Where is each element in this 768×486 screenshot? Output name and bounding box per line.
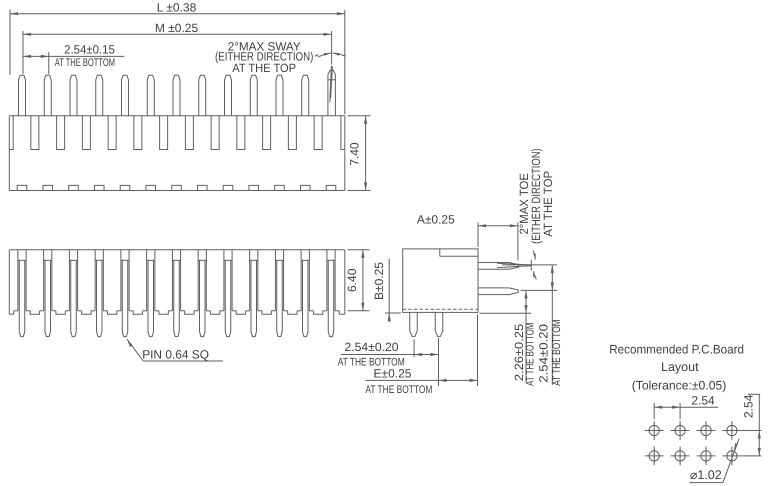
view1 bottom notch 6 bbox=[146, 185, 156, 190]
svg-text:⌀1.02: ⌀1.02 bbox=[690, 468, 722, 482]
svg-text:2.54: 2.54 bbox=[691, 394, 715, 408]
dimension L ±0.38 bbox=[10, 0, 345, 114]
B dimension line bbox=[388, 259, 390, 323]
view 1: straight header front view bbox=[9, 66, 345, 191]
dimension 2.54±0.20 right (vertical) bbox=[537, 265, 564, 386]
view1 slot 7 bbox=[185, 116, 193, 150]
PCB hole row1 col4 bbox=[723, 421, 742, 440]
M left extension line bbox=[22, 31, 24, 74]
view1 slot 5 bbox=[134, 116, 142, 150]
view2 body right edge bbox=[344, 250, 346, 315]
view1 pin 4 bbox=[96, 75, 103, 115]
view1 slot 8 bbox=[211, 116, 219, 150]
view1 body top edge bbox=[9, 115, 345, 117]
7.40 dimension line bbox=[365, 116, 367, 191]
svg-text:PIN 0.64 SQ: PIN 0.64 SQ bbox=[142, 347, 209, 361]
svg-text:Layout: Layout bbox=[661, 360, 699, 374]
pinB extension bbox=[438, 338, 440, 386]
view1 pin 5 bbox=[122, 75, 129, 115]
view2 castellated bottom edge bbox=[9, 313, 14, 315]
dimension E±0.25 bbox=[365, 315, 477, 396]
svg-text:(Tolerance:±0.05): (Tolerance:±0.05) bbox=[632, 379, 727, 393]
view1 pin 3 bbox=[70, 75, 77, 115]
view1 pin 1 bbox=[19, 75, 26, 115]
sway leader bbox=[315, 55, 319, 57]
view3 lower horizontal pin bbox=[478, 288, 518, 295]
view2 pin 2 bbox=[43, 250, 45, 311]
PCB hole row2 col3 bbox=[697, 447, 716, 466]
svg-text:AT THE TOP: AT THE TOP bbox=[541, 171, 555, 237]
6.40 dimension line bbox=[362, 250, 364, 311]
view2 pin 6 bbox=[146, 250, 148, 311]
svg-text:6.40: 6.40 bbox=[345, 268, 359, 292]
view2 pin 8 bbox=[197, 250, 199, 311]
view1 slot 1 bbox=[31, 116, 39, 150]
pin13 shoulder line bbox=[328, 79, 336, 81]
view2 pin 9 bbox=[223, 250, 225, 311]
view2 pin 3 bbox=[68, 250, 70, 311]
view1 pin 8 bbox=[199, 75, 206, 115]
view1 bottom notch 2 bbox=[43, 185, 53, 190]
view1 bottom notch 11 bbox=[275, 185, 285, 190]
view1 slot 9 bbox=[237, 116, 245, 150]
view3 bottom pin A bbox=[410, 312, 418, 336]
view2 pin 5 bbox=[120, 250, 122, 311]
view1 bottom notch 1 bbox=[17, 185, 27, 190]
2° max toe note bbox=[517, 148, 555, 279]
A dimension line bbox=[478, 225, 518, 227]
PCB dimension 2.54 vertical bbox=[741, 394, 761, 456]
M dimension line bbox=[23, 33, 332, 35]
view1 slot 6 bbox=[160, 116, 168, 150]
svg-text:2.54±0.20: 2.54±0.20 bbox=[537, 324, 551, 383]
upper pin center extension bbox=[502, 264, 557, 266]
svg-text:L ±0.38: L ±0.38 bbox=[157, 0, 197, 14]
col1 extension bbox=[653, 403, 655, 420]
B bottom extension bbox=[385, 312, 401, 314]
view2 pin 11 bbox=[274, 250, 276, 311]
view2 pin 10 bbox=[249, 250, 251, 311]
svg-text:AT THE BOTTOM: AT THE BOTTOM bbox=[551, 319, 563, 385]
L right extension line bbox=[344, 10, 346, 114]
view3 top seam vertical bbox=[439, 249, 441, 256]
7.40 top extension bbox=[348, 115, 371, 117]
view 2: straight header pin-side view bbox=[9, 250, 345, 337]
view1 pin 6 bbox=[147, 75, 154, 115]
view1 bottom notch 12 bbox=[300, 185, 310, 190]
view1 pin 13 tilt spike bbox=[330, 66, 332, 103]
view1 pin 9 bbox=[225, 75, 232, 115]
view3 upper pin tilt wedge bbox=[497, 263, 532, 265]
PCB hole row2 col1 bbox=[645, 447, 664, 466]
view1 bottom notch 5 bbox=[120, 185, 130, 190]
recommended PCB layout title bbox=[609, 342, 744, 392]
svg-text:A±0.25: A±0.25 bbox=[417, 212, 455, 226]
view1 slot 10 bbox=[263, 116, 271, 150]
svg-text:B±0.25: B±0.25 bbox=[372, 262, 386, 300]
body right edge extension bbox=[477, 315, 479, 386]
svg-text:E±0.25: E±0.25 bbox=[374, 366, 412, 380]
PCB hole row2 col2 bbox=[671, 447, 690, 466]
7.40 bottom extension bbox=[348, 190, 371, 192]
pin2 extension line bbox=[48, 52, 50, 74]
view1 slot 2 bbox=[57, 116, 65, 150]
view1 bottom notch 10 bbox=[249, 185, 259, 190]
view1 bottom notch 7 bbox=[172, 185, 182, 190]
view1 slot 3 bbox=[82, 116, 90, 150]
view1 pin 7 bbox=[173, 75, 180, 115]
pinA extension bbox=[413, 339, 415, 357]
view2 body top edge bbox=[9, 249, 345, 251]
sway arc left bbox=[318, 53, 331, 57]
svg-text:AT THE BOTTOM: AT THE BOTTOM bbox=[525, 323, 537, 386]
svg-text:2.54±0.20: 2.54±0.20 bbox=[344, 340, 399, 354]
2.54 dimension line bbox=[758, 394, 760, 456]
svg-text:AT THE TOP: AT THE TOP bbox=[232, 61, 296, 75]
view1 body left edge bbox=[8, 116, 10, 191]
A right extension bbox=[517, 223, 519, 261]
E dimension line bbox=[365, 379, 477, 381]
view2 pin 13 bbox=[326, 250, 328, 311]
dimension M ±0.25 bbox=[23, 21, 332, 74]
6.40 top extension bbox=[348, 249, 370, 251]
view1 bottom notch 8 bbox=[197, 185, 207, 190]
leader line bbox=[127, 339, 143, 361]
view1 slot 4 bbox=[108, 116, 116, 150]
dimension 7.40 bbox=[348, 116, 371, 191]
PCB hole row2 col4 bbox=[723, 447, 742, 466]
2.26 dimension line bbox=[525, 290, 527, 382]
view2 body left edge bbox=[8, 250, 10, 315]
view2 pin 1 bbox=[17, 250, 19, 311]
PCB hole diameter 1.02 leader bbox=[689, 439, 739, 483]
L dimension line bbox=[10, 13, 345, 15]
view3 dashed line bbox=[403, 308, 478, 310]
dimension 2.26±0.25 at the bottom (vertical) bbox=[512, 290, 537, 385]
row1 extension bbox=[742, 430, 762, 432]
6.40 bottom extension bbox=[348, 310, 370, 312]
PCB hole row1 col2 bbox=[671, 421, 690, 440]
dimension B±0.25 bbox=[372, 259, 401, 323]
view1 pin 13 (swayed) bbox=[328, 70, 336, 115]
view1 body right edge bbox=[344, 116, 346, 191]
dimension 2.54±0.15 at the bottom bbox=[23, 43, 124, 74]
view2 pin 4 bbox=[94, 250, 96, 311]
leader underline bbox=[143, 360, 223, 362]
svg-text:M ±0.25: M ±0.25 bbox=[155, 21, 199, 35]
view3 upper horizontal pin bbox=[478, 263, 519, 270]
dim line top tail bbox=[748, 393, 761, 395]
view1 slot 11 bbox=[288, 116, 296, 150]
row2 extension bbox=[742, 455, 762, 457]
svg-text:2.54±0.15: 2.54±0.15 bbox=[64, 43, 115, 57]
2° max sway note bbox=[215, 40, 346, 76]
view1 pin 2 bbox=[44, 75, 51, 115]
svg-text:Recommended P.C.Board: Recommended P.C.Board bbox=[609, 342, 744, 356]
view1 pin 10 bbox=[250, 75, 257, 115]
dimension 6.40 bbox=[345, 250, 369, 311]
dimension A±0.25 bbox=[417, 212, 518, 260]
leader diagonal bbox=[723, 439, 739, 483]
svg-text:2.54: 2.54 bbox=[741, 394, 755, 418]
PCB dimension 2.54 horizontal bbox=[654, 394, 718, 420]
pin 0.64 sq leader note bbox=[127, 339, 223, 361]
view1 body bottom edge bbox=[9, 190, 345, 192]
svg-text:7.40: 7.40 bbox=[348, 142, 362, 166]
view1 bottom notch 3 bbox=[69, 185, 79, 190]
view 3: right-angle header side view bbox=[403, 249, 478, 313]
toe arc upper bbox=[533, 251, 535, 260]
body bottom extension bbox=[480, 312, 532, 314]
view1 left half slot bbox=[9, 116, 13, 150]
leader underline bbox=[689, 482, 723, 484]
A left extension bbox=[477, 223, 479, 248]
2.54 dimension line bbox=[551, 265, 553, 385]
2.54 dimension line bbox=[654, 406, 718, 408]
svg-text:AT THE BOTTOM: AT THE BOTTOM bbox=[55, 57, 115, 69]
col2 extension bbox=[679, 403, 681, 420]
PCB hole row1 col1 bbox=[645, 421, 664, 440]
view3 top seam horizontal bbox=[440, 255, 478, 257]
view1 bottom notch 4 bbox=[94, 185, 104, 190]
toe tilt tick bbox=[530, 260, 532, 271]
dimension 2.54±0.20 bottom pins bbox=[338, 338, 439, 386]
view1 pin 11 bbox=[276, 75, 283, 115]
view1 slot 12 bbox=[314, 116, 322, 150]
view1 right half slot bbox=[341, 116, 345, 150]
toe arc lower bbox=[533, 271, 536, 279]
view3 bottom pin B bbox=[435, 312, 443, 336]
view2 pin 7 bbox=[171, 250, 173, 311]
PCB hole row1 col3 bbox=[697, 421, 716, 440]
L left extension line bbox=[9, 10, 11, 76]
view1 bottom notch 9 bbox=[223, 185, 233, 190]
2.54 dimension line bbox=[23, 55, 124, 57]
view1 bottom notch 13 bbox=[326, 185, 336, 190]
view2 pin 12 bbox=[300, 250, 302, 311]
lower pin center extension bbox=[521, 289, 558, 291]
sway arc right bbox=[333, 53, 346, 56]
M right extension line / sway centerline bbox=[331, 31, 333, 64]
view1 pin 12 bbox=[302, 75, 309, 115]
2.54 dimension line bbox=[341, 354, 438, 356]
svg-text:AT THE BOTTOM: AT THE BOTTOM bbox=[365, 384, 432, 396]
